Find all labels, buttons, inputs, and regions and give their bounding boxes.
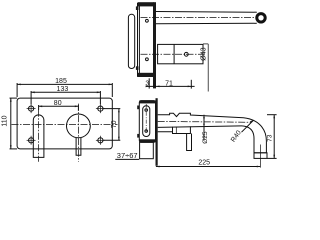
arrow 133 right [97, 91, 101, 93]
dim 70 ext bottom [103, 139, 120, 141]
aerator box [254, 153, 267, 159]
svg-text:3: 3 [145, 81, 149, 88]
below-plate box [140, 142, 154, 158]
arrow 70 bottom [118, 137, 120, 141]
body bottom step [158, 126, 191, 133]
arrow left of 3 [146, 86, 150, 88]
svg-text:80: 80 [54, 100, 62, 107]
dim 70 line [118, 109, 120, 141]
R40 arrowhead [250, 120, 254, 122]
svg-text:73: 73 [266, 134, 273, 142]
arrow d25 bottom [203, 124, 205, 128]
screw hole bottom [146, 58, 149, 61]
spout tip ring [257, 14, 265, 22]
slot screw top [145, 109, 148, 112]
arrow 110 bottom [10, 145, 12, 149]
dim 133 ext right [99, 91, 101, 104]
dim 110 line [10, 98, 12, 149]
arrow 133 left [31, 91, 35, 93]
pipe bottom line [158, 126, 242, 128]
spout tube top line [156, 11, 257, 14]
dim 70 ext top [103, 108, 120, 110]
mounting hole top-left [27, 104, 36, 113]
svg-text:37÷67: 37÷67 [117, 151, 138, 160]
dim 185 line [17, 83, 112, 85]
clip tab top (side view) [137, 106, 139, 110]
dim 80 line [39, 105, 79, 107]
dim 225 line [156, 166, 261, 168]
37÷67 underline [115, 158, 139, 160]
clip tab bottom (side view) [137, 134, 139, 138]
svg-text:225: 225 [198, 160, 210, 167]
dim line 3 / 71 [146, 85, 195, 87]
handle lever front [76, 138, 81, 156]
arrow d25 top [203, 115, 205, 119]
arrow 80 left [39, 105, 43, 107]
slot (rounded top) [33, 115, 44, 158]
wall section line (thick vertical) [153, 2, 156, 88]
arrow 225 left [156, 166, 160, 168]
mounting hole bottom-right [96, 136, 105, 145]
wall plate front outline [17, 98, 112, 149]
arrow 70 top [118, 109, 120, 113]
wall plate bottom cap (thick) [138, 73, 154, 77]
handle body (plan) [158, 44, 203, 63]
arrow middle (wall side) [156, 86, 160, 88]
R40 leader [242, 120, 254, 132]
handle centerline vertical [77, 104, 79, 162]
dim ext tick for D43 [203, 43, 208, 45]
arrow 110 top [10, 98, 12, 102]
dim 110 ext top [10, 97, 18, 99]
handle pivot circle [184, 52, 188, 56]
dim 80 ext right [77, 105, 79, 111]
handle centerline [141, 53, 204, 55]
arrow right of 71 [188, 86, 192, 88]
spout outer bend R40 [244, 118, 267, 153]
dim 73 bottom extension [267, 157, 276, 159]
spout inner bend [242, 126, 255, 153]
arrow 73 top [273, 115, 275, 119]
pipe end line [254, 152, 267, 154]
mounting hole bottom-left [27, 136, 36, 145]
slot centerline vertical [38, 110, 40, 162]
arrow 225 right [257, 166, 261, 168]
arrow 185 right [109, 84, 113, 86]
wall section line (thick vertical) [156, 98, 158, 166]
inner slot (side view) [143, 106, 150, 137]
slot centerline [145, 104, 147, 133]
dim ext line for D43 [207, 44, 209, 92]
mounting hole top-right [96, 104, 105, 113]
pipe top outline with collar notch [158, 113, 244, 117]
arrow 185 left [17, 84, 21, 86]
dim 80 ext left [38, 105, 40, 110]
clip square bottom [136, 66, 139, 70]
dim 185 ext left [16, 83, 18, 97]
plate top cap (thick) [139, 100, 155, 103]
dim 110 ext bottom [10, 148, 18, 150]
dim 73 top extension [267, 114, 277, 116]
step divider [175, 127, 177, 134]
arrow 80 right [75, 105, 79, 107]
dim 225 right extension / centerline [259, 145, 261, 168]
svg-text:133: 133 [57, 86, 69, 93]
handle pivot dot [186, 54, 187, 55]
dim 3/71 extension right [190, 80, 192, 89]
svg-text:Ø25: Ø25 [202, 131, 209, 144]
arrow 73 bottom [273, 155, 275, 159]
handle body divider [173, 44, 175, 63]
wall plate top cap (thick) [138, 2, 154, 6]
dim 73 line [273, 115, 275, 159]
dim Ø25 line [203, 115, 205, 140]
screw hole top [146, 19, 149, 22]
dim 133 line [31, 91, 100, 93]
svg-text:71: 71 [165, 81, 173, 88]
wall plate (side) outline [139, 101, 155, 143]
horizontal centerline [12, 124, 118, 126]
svg-text:Ø43: Ø43 [199, 47, 208, 61]
in-wall body (rounded housing left of plate) [128, 14, 134, 68]
spout centerline [141, 16, 258, 18]
svg-text:110: 110 [1, 115, 8, 126]
dim 3/71 extension left [148, 78, 150, 88]
svg-text:185: 185 [55, 78, 67, 85]
handle escutcheon circle [67, 114, 91, 138]
svg-text:70: 70 [111, 120, 118, 128]
lever (hanging down) [187, 134, 192, 151]
wall plate (plan view) left edge double line [137, 3, 139, 77]
spout tube bottom line [156, 22, 257, 25]
clip square top [136, 6, 139, 10]
dim 133 ext left [30, 91, 32, 104]
dim 185 ext right [111, 83, 113, 97]
plate bottom cap (thick) [139, 139, 155, 142]
pipe centerline [158, 120, 252, 123]
slot screw bottom [145, 130, 148, 133]
